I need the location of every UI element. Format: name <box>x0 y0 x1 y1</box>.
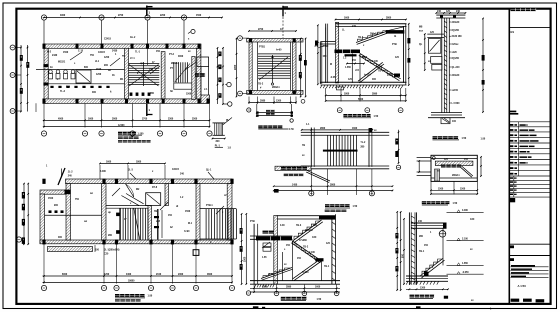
svg-text:x120: x120 <box>452 52 458 54</box>
svg-text:QL-1: QL-1 <box>206 170 212 172</box>
svg-text:2700: 2700 <box>142 119 148 121</box>
svg-text:2.100: 2.100 <box>309 252 316 254</box>
svg-text:TB-3: TB-3 <box>296 225 302 227</box>
svg-text:4000: 4000 <box>58 118 64 121</box>
svg-text:PT-2: PT-2 <box>169 54 175 56</box>
svg-text:2800: 2800 <box>320 128 326 130</box>
svg-text:h=110: h=110 <box>364 75 371 77</box>
svg-text:280x11: 280x11 <box>272 87 280 89</box>
svg-text:240: 240 <box>68 175 73 178</box>
svg-text:2800: 2800 <box>386 18 392 20</box>
svg-text:17x280: 17x280 <box>299 240 307 242</box>
svg-text:3000: 3000 <box>112 119 118 121</box>
svg-text:1.650: 1.650 <box>462 263 469 265</box>
svg-text:8@200: 8@200 <box>452 30 460 32</box>
svg-text:3.300: 3.300 <box>323 46 330 48</box>
svg-text:PL-1: PL-1 <box>215 144 221 147</box>
svg-text:dt: dt <box>176 205 178 208</box>
svg-text:2200: 2200 <box>160 15 166 17</box>
svg-text:TB-2: TB-2 <box>303 247 309 249</box>
svg-text:GL-2: GL-2 <box>130 37 136 39</box>
svg-text:1:50: 1:50 <box>148 296 153 298</box>
svg-text:PTB: PTB <box>392 44 397 46</box>
svg-text:TL-3: TL-3 <box>60 91 66 93</box>
svg-text:-0.050: -0.050 <box>462 272 469 274</box>
svg-text:A 1:50: A 1:50 <box>518 284 527 288</box>
svg-text:3300: 3300 <box>245 256 247 262</box>
svg-text:1.650: 1.650 <box>345 67 352 69</box>
svg-text:1:50: 1:50 <box>453 203 458 205</box>
svg-text:1200: 1200 <box>104 274 110 276</box>
svg-text:1500: 1500 <box>63 52 69 54</box>
svg-text:2430: 2430 <box>52 54 58 57</box>
svg-text:3.30: 3.30 <box>280 225 285 227</box>
svg-text:2700: 2700 <box>118 15 124 17</box>
svg-text:1600: 1600 <box>88 119 94 121</box>
svg-text:1800: 1800 <box>262 287 268 289</box>
svg-text:C2415: C2415 <box>104 38 112 41</box>
svg-text:2.100: 2.100 <box>372 61 379 63</box>
svg-text:240x20: 240x20 <box>452 74 460 77</box>
svg-text:2100: 2100 <box>96 69 102 71</box>
svg-text:TB-1: TB-1 <box>324 266 330 268</box>
svg-text:LT-1: LT-1 <box>130 58 135 60</box>
svg-text:280x12: 280x12 <box>370 34 378 36</box>
svg-text:PTB-1: PTB-1 <box>206 205 213 207</box>
svg-text:1500: 1500 <box>460 188 466 190</box>
svg-text:3300: 3300 <box>60 15 66 17</box>
svg-text:TB-1: TB-1 <box>378 71 384 73</box>
svg-text:JL-3: JL-3 <box>128 170 133 172</box>
svg-text:TL-1: TL-1 <box>135 52 141 54</box>
svg-text:QL-240: QL-240 <box>452 66 461 69</box>
svg-text:1600: 1600 <box>352 128 358 130</box>
svg-text:1:50: 1:50 <box>317 299 322 301</box>
svg-text:8@200: 8@200 <box>452 58 460 60</box>
svg-text:C-15: C-15 <box>78 51 84 53</box>
svg-text:3400: 3400 <box>126 273 132 276</box>
svg-text:TB-3: TB-3 <box>358 37 364 39</box>
svg-text:12400: 12400 <box>118 124 125 127</box>
svg-text:M1521: M1521 <box>58 62 66 64</box>
svg-text:-0.05: -0.05 <box>268 274 274 276</box>
svg-text:1:50: 1:50 <box>462 138 467 140</box>
svg-text:1200: 1200 <box>104 57 110 59</box>
svg-text:2C20 180: 2C20 180 <box>452 36 463 38</box>
svg-text:C20: C20 <box>470 219 475 221</box>
svg-text:-0.05: -0.05 <box>330 77 336 79</box>
svg-text:1600: 1600 <box>315 287 321 289</box>
svg-text:6000: 6000 <box>62 274 68 276</box>
svg-text:M-1: M-1 <box>188 223 193 225</box>
svg-text:3.300: 3.300 <box>462 210 469 212</box>
svg-text:h=90: h=90 <box>276 50 282 52</box>
svg-text:1800: 1800 <box>344 94 350 96</box>
svg-text:GS: GS <box>510 30 514 34</box>
svg-text:h=90: h=90 <box>184 231 190 233</box>
svg-text:DT-8: DT-8 <box>152 187 158 189</box>
svg-text:1:50: 1:50 <box>289 129 294 131</box>
svg-text:2500: 2500 <box>192 119 198 121</box>
svg-text:3600: 3600 <box>207 274 213 276</box>
svg-text:1.65: 1.65 <box>262 257 267 259</box>
svg-text:1450: 1450 <box>292 183 298 186</box>
svg-text:C20xx: C20xx <box>452 44 460 46</box>
svg-text:2300: 2300 <box>178 274 184 276</box>
svg-text:280x12: 280x12 <box>305 230 313 232</box>
svg-text:sw: sw <box>84 221 87 223</box>
svg-text:PTB1: PTB1 <box>259 47 266 49</box>
svg-text:2100: 2100 <box>156 274 162 276</box>
svg-text:1800: 1800 <box>136 162 142 164</box>
svg-text:M-2: M-2 <box>47 52 52 54</box>
svg-text:1500: 1500 <box>185 211 191 213</box>
svg-text:2890: 2890 <box>372 94 378 96</box>
svg-text:lt: lt <box>110 91 112 94</box>
svg-text:1500: 1500 <box>186 94 192 96</box>
svg-text:2300: 2300 <box>168 119 174 121</box>
svg-text:1:50: 1:50 <box>353 206 358 208</box>
svg-text:JL-1(300x500): JL-1(300x500) <box>104 250 120 252</box>
svg-text:TL-2: TL-2 <box>360 142 366 144</box>
svg-text:2430: 2430 <box>112 50 118 53</box>
svg-text:h=110: h=110 <box>302 272 309 274</box>
svg-text:280x13: 280x13 <box>171 63 179 65</box>
svg-text:2890: 2890 <box>286 287 292 289</box>
svg-text:C2415: C2415 <box>172 168 180 171</box>
svg-text:2700: 2700 <box>258 29 264 31</box>
svg-text:240x20: 240x20 <box>452 21 460 24</box>
svg-text:3080: 3080 <box>260 101 266 103</box>
svg-text:1:50: 1:50 <box>481 138 486 140</box>
svg-text:xx150: xx150 <box>452 90 459 92</box>
svg-text:2.100: 2.100 <box>462 238 469 240</box>
svg-text:C20: C20 <box>312 237 317 239</box>
svg-text:5600: 5600 <box>358 99 364 101</box>
svg-text:1500: 1500 <box>48 198 54 200</box>
svg-text:1200: 1200 <box>96 74 102 76</box>
svg-text:1500: 1500 <box>387 75 393 77</box>
svg-text:1600: 1600 <box>344 18 350 20</box>
svg-text:PTB: PTB <box>250 221 255 223</box>
svg-text:TB-1: TB-1 <box>419 251 425 253</box>
svg-text:C20: C20 <box>104 254 109 256</box>
svg-text:1300: 1300 <box>276 101 282 103</box>
svg-text:1300: 1300 <box>420 287 426 289</box>
svg-text:18600: 18600 <box>128 281 135 283</box>
svg-text:JL1: JL1 <box>95 61 100 63</box>
svg-text:1600: 1600 <box>106 162 112 164</box>
svg-text:2900: 2900 <box>235 64 237 70</box>
svg-text:1500: 1500 <box>196 15 202 17</box>
svg-text:C2415: C2415 <box>98 51 106 54</box>
svg-text:TB-2: TB-2 <box>258 84 264 86</box>
svg-text:L=1500: L=1500 <box>452 103 461 105</box>
svg-text:3000: 3000 <box>178 56 184 58</box>
svg-text:280x11: 280x11 <box>452 175 460 177</box>
svg-text:TB: TB <box>154 211 157 213</box>
svg-text:3.300: 3.300 <box>100 171 107 173</box>
svg-text:M: M <box>330 64 332 66</box>
svg-text:TB-2: TB-2 <box>362 57 368 59</box>
svg-text:1500: 1500 <box>438 188 444 190</box>
svg-text:1:50: 1:50 <box>374 116 379 118</box>
svg-text:JL-2: JL-2 <box>68 172 73 174</box>
svg-text:TB: TB <box>302 145 305 147</box>
svg-text:2800: 2800 <box>330 184 336 186</box>
